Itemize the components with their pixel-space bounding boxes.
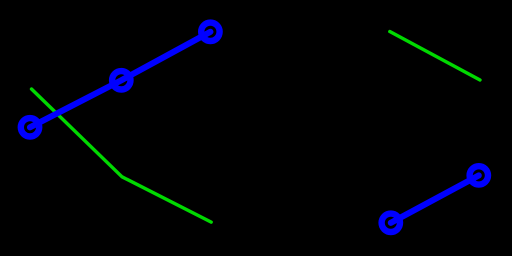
blue series line left — [30, 32, 210, 128]
marker left point 3 — [201, 23, 219, 41]
marker right point 2 — [470, 166, 488, 184]
green polyline left — [32, 89, 212, 222]
blue series line right — [391, 175, 479, 222]
marker left point 1 — [21, 118, 39, 136]
marker right point 1 — [382, 214, 400, 232]
green line right — [390, 32, 480, 81]
marker left point 2 — [112, 71, 130, 89]
